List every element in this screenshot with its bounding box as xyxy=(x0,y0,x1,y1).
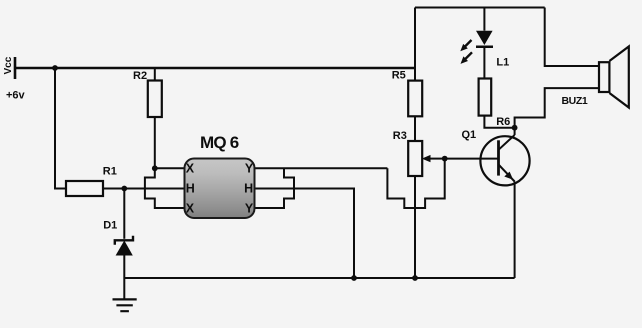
node junction dot H-right/ground rail xyxy=(351,275,357,281)
LED L1 cathode bar xyxy=(476,46,493,49)
node junction dot R1/H/D1 xyxy=(121,186,127,192)
wire R6 bottom to collector node xyxy=(484,116,514,128)
wire R2 top stub xyxy=(154,68,156,81)
wire H right pin to ground rail xyxy=(255,189,355,279)
wire left branch down to R1 xyxy=(55,68,66,189)
wire Y line staircase to wiper node xyxy=(387,159,444,208)
LED L1 triangle xyxy=(476,31,493,45)
wire top Vcc rail xyxy=(15,67,415,69)
svg-text:BUZ1: BUZ1 xyxy=(562,95,588,107)
svg-text:H: H xyxy=(244,182,253,196)
svg-text:R2: R2 xyxy=(133,70,147,82)
svg-text:R3: R3 xyxy=(393,130,407,142)
svg-text:MQ 6: MQ 6 xyxy=(200,133,239,152)
wire right Y-Y strap xyxy=(255,168,295,208)
wire top right rail xyxy=(415,7,545,9)
svg-text:R1: R1 xyxy=(103,166,117,178)
buzzer BUZ1 horn xyxy=(609,47,628,108)
svg-text:L1: L1 xyxy=(496,57,509,69)
svg-text:X: X xyxy=(186,162,195,176)
wire Q1 collector xyxy=(514,128,516,135)
Vcc terminal bar xyxy=(14,57,17,79)
node junction dot R3/ground rail xyxy=(412,275,418,281)
node junction dot wiper/base xyxy=(442,156,448,162)
svg-text:R5: R5 xyxy=(392,70,406,82)
resistor R2 body xyxy=(148,81,162,118)
svg-text:R6: R6 xyxy=(496,116,510,128)
LED arrow 1 xyxy=(460,40,471,51)
wire buzzer top terminal xyxy=(545,8,599,67)
resistor R6 body xyxy=(479,79,492,116)
wire pot wiper lead xyxy=(430,158,445,160)
svg-text:+6v: +6v xyxy=(6,90,26,102)
diode D1 cathode bar with zener hooks xyxy=(115,236,133,245)
transistor Q1 emitter diagonal xyxy=(499,165,515,182)
pot R3 wiper arrowhead xyxy=(422,155,431,162)
wire Q1 emitter to ground rail xyxy=(514,182,516,279)
wire D1 anode down to ground xyxy=(123,256,125,300)
node junction dot collector xyxy=(512,125,518,131)
LED arrow 2 xyxy=(461,52,473,64)
resistor R5 body xyxy=(408,81,422,117)
svg-text:X: X xyxy=(186,202,195,216)
ground symbol xyxy=(113,299,137,311)
transistor Q1 body circle xyxy=(480,136,529,185)
wire LED cathode to R6 xyxy=(483,48,485,79)
wire node to MQ6 pin X top xyxy=(155,167,185,169)
wire R3 bottom to ground rail xyxy=(414,176,416,278)
wire LED anode stub xyxy=(483,8,485,31)
potentiometer R3 body xyxy=(408,141,422,176)
wire R2 bottom to node xyxy=(154,117,156,168)
wire R1 right lead xyxy=(103,188,124,190)
MQ6 sensor body xyxy=(185,159,255,219)
node junction dot rail-left xyxy=(52,65,58,71)
svg-text:Y: Y xyxy=(245,162,254,176)
diode D1 anode triangle xyxy=(116,241,133,256)
buzzer BUZ1 coil box xyxy=(599,62,609,92)
wire base lead Q1 xyxy=(445,158,499,160)
wire D1 cathode up to node xyxy=(123,189,125,239)
resistor R1 body xyxy=(66,181,103,196)
transistor Q1 emitter arrowhead xyxy=(504,172,513,180)
svg-text:D1: D1 xyxy=(103,220,117,232)
svg-text:Q1: Q1 xyxy=(462,129,477,141)
transistor Q1 collector diagonal xyxy=(499,135,515,150)
wire Y top pin run xyxy=(255,167,388,169)
wire H left pin xyxy=(124,188,184,190)
svg-text:Y: Y xyxy=(245,202,254,216)
node junction dot R2/X xyxy=(152,165,158,171)
wire bottom ground rail xyxy=(124,277,514,279)
wire R5 top from rail xyxy=(414,8,416,81)
svg-text:Vcc: Vcc xyxy=(3,56,14,74)
svg-text:H: H xyxy=(186,182,195,196)
wire R5 to R3 xyxy=(414,116,416,141)
wire left X-X strap xyxy=(145,168,185,208)
wire buzzer bottom terminal to collector node xyxy=(515,88,599,128)
transistor Q1 base bar xyxy=(497,140,500,175)
